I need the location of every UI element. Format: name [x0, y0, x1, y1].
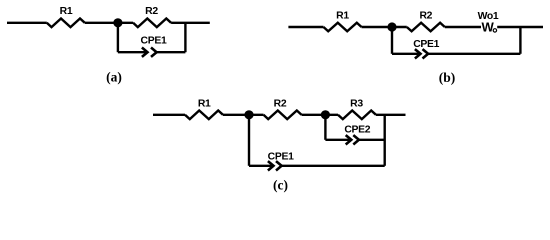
svg-text:CPE1: CPE1	[268, 151, 294, 162]
wire: circuit b right terminal	[497, 26, 543, 28]
constant phase element CPE1 (circuit a)	[118, 35, 185, 57]
constant phase element CPE1 (circuit c)	[249, 151, 385, 170]
wire: vertical branch down from node C2 (circuit c)	[324, 115, 326, 140]
wire: left vertical branch down from node B (circuit b)	[391, 27, 393, 54]
wire: R1 to node A (circuit a)	[85, 22, 133, 24]
constant phase element CPE1 (circuit b)	[392, 39, 520, 59]
wire: circuit b left terminal	[288, 26, 323, 28]
svg-text:CPE1: CPE1	[141, 35, 167, 46]
wire: R2 to Warburg (circuit b)	[445, 26, 481, 28]
resistor R2 (circuit b)	[407, 11, 445, 32]
node B junction dot (circuit b)	[387, 22, 396, 31]
wire: R1 to node C1 (circuit c)	[223, 114, 264, 116]
resistor R1 (circuit a)	[47, 6, 85, 27]
svg-text:(a): (a)	[106, 70, 122, 85]
wire: circuit a left terminal	[7, 22, 47, 24]
label (c)	[273, 177, 288, 192]
svg-text:CPE2: CPE2	[344, 125, 370, 136]
wire: R1 to node B (circuit b)	[362, 26, 407, 28]
wire: circuit a right terminal	[171, 22, 210, 24]
wire: circuit c right terminal	[376, 114, 406, 116]
svg-text:(c): (c)	[273, 177, 288, 192]
label (b)	[439, 70, 456, 85]
resistor R1 (circuit b)	[324, 11, 362, 32]
resistor R1 (circuit c)	[185, 99, 223, 119]
svg-text:R1: R1	[198, 99, 211, 110]
wire: left vertical branch down from node A (circuit a)	[117, 23, 119, 52]
wire: circuit c left terminal	[153, 114, 185, 116]
svg-text:R2: R2	[145, 6, 158, 17]
svg-text:Wo1: Wo1	[478, 11, 499, 22]
resistor R2 (circuit c)	[264, 99, 302, 119]
node C2 junction dot (circuit c)	[321, 110, 330, 119]
resistor R3 (circuit c)	[338, 99, 376, 119]
label (a)	[106, 70, 122, 85]
node C1 junction dot (circuit c)	[244, 110, 253, 119]
svg-text:(b): (b)	[439, 70, 456, 85]
svg-text:CPE1: CPE1	[413, 39, 439, 50]
node A junction dot (circuit a)	[113, 18, 122, 27]
resistor R2 (circuit a)	[133, 6, 171, 27]
wire: right vertical branch up to main wire (circuit a)	[184, 23, 186, 52]
svg-text:R2: R2	[274, 99, 287, 110]
svg-text:R2: R2	[419, 11, 432, 22]
Warburg element Wo1 (circuit b)	[478, 11, 499, 35]
svg-text:R1: R1	[336, 11, 349, 22]
svg-text:R3: R3	[350, 99, 363, 110]
svg-text:R1: R1	[60, 6, 73, 17]
wire: vertical branch down from node C1 (circuit c)	[248, 115, 250, 166]
wire: R2 to node C2 (circuit c)	[302, 114, 339, 116]
wire: right vertical branch up to main wire (circuit b)	[519, 27, 521, 54]
wire: right vertical joining main wire, CPE2 and CPE1 (circuit c)	[384, 115, 386, 166]
constant phase element CPE2 (circuit c)	[325, 125, 384, 145]
